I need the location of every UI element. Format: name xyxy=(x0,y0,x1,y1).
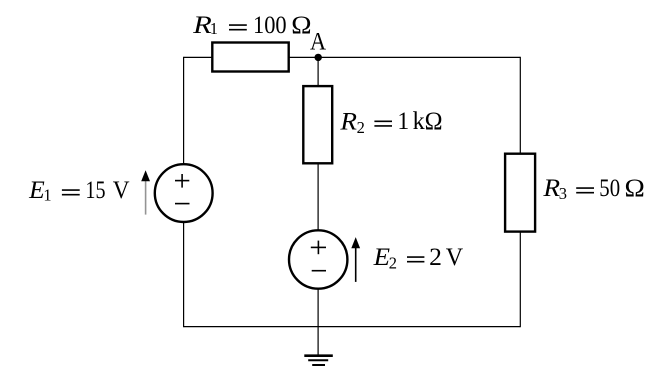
wire: R2 bottom to E2 top xyxy=(317,163,319,230)
svg-text:Ω: Ω xyxy=(625,175,645,202)
wire: top horizontal segment (R1 to top-right corner) xyxy=(289,56,521,58)
resistor R2 xyxy=(303,86,332,163)
label E2 value: E2 = 2 V xyxy=(373,244,464,272)
svg-text:E: E xyxy=(373,244,390,271)
E1 plus sign xyxy=(175,174,189,188)
resistor R3 xyxy=(505,154,535,232)
wire: node A to R2 top xyxy=(317,57,319,86)
svg-text:2: 2 xyxy=(429,244,442,271)
svg-text:R: R xyxy=(339,108,357,135)
svg-text:100: 100 xyxy=(253,12,287,39)
svg-text:A: A xyxy=(310,29,326,56)
wire: E2 bottom through bottom wire to ground stem xyxy=(317,288,319,355)
wire: top-left horizontal segment (left corner to R1) xyxy=(184,56,213,58)
svg-text:2: 2 xyxy=(357,118,365,137)
svg-text:R: R xyxy=(542,175,560,202)
wire: right vertical lower segment (R3 to bottom-right corner) xyxy=(519,232,521,328)
E2 minus sign xyxy=(312,270,326,272)
wire: left vertical lower segment (E1 bottom to bottom-left corner) xyxy=(183,222,185,327)
label E1 value: E1 = 15 V xyxy=(28,177,129,205)
E2 arrow xyxy=(351,237,360,282)
svg-text:1: 1 xyxy=(210,19,218,38)
svg-text:1: 1 xyxy=(43,186,51,205)
source E2 (circle) xyxy=(289,230,347,288)
ground xyxy=(304,356,333,365)
svg-text:kΩ: kΩ xyxy=(413,108,443,135)
svg-text:15: 15 xyxy=(85,177,105,204)
E1 arrow (gray shaft, black head) xyxy=(141,170,150,214)
wire: left vertical upper segment (corner to E1 top) xyxy=(183,57,185,165)
wire: bottom horizontal xyxy=(184,326,521,328)
wire: right vertical upper segment (top-right corner to R3) xyxy=(519,57,521,154)
svg-text:E: E xyxy=(28,177,45,204)
svg-text:2: 2 xyxy=(389,253,397,272)
svg-text:V: V xyxy=(113,177,130,204)
resistor R1 xyxy=(212,43,288,72)
label R1 value: R1 = 100 Ohm xyxy=(192,12,312,39)
svg-text:1: 1 xyxy=(397,108,409,135)
E2 plus sign xyxy=(311,241,326,255)
E1 minus sign xyxy=(175,203,190,205)
source E1 (circle) xyxy=(155,164,213,222)
svg-text:V: V xyxy=(446,244,463,271)
label R2 value: R2 = 1 kOhm xyxy=(339,108,442,137)
svg-text:50: 50 xyxy=(599,175,620,202)
svg-text:3: 3 xyxy=(559,184,567,203)
node A junction dot xyxy=(315,54,322,61)
label R3 value: R3 = 50 Ohm xyxy=(542,175,644,203)
svg-text:Ω: Ω xyxy=(291,12,311,39)
